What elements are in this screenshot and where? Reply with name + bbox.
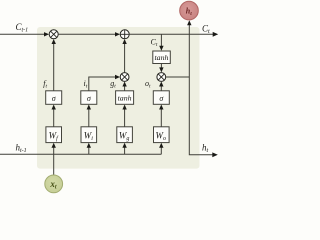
wire junction up to h_t state: [187, 20, 191, 77]
wire multiply to add node: [122, 39, 126, 73]
wire g gate to multiply: [122, 82, 126, 91]
node label C_t branch: [151, 37, 158, 48]
wire o gate to multiply: [159, 82, 163, 91]
wire C_{t-1} input: [0, 32, 49, 36]
tanh box (candidate gate): [116, 91, 134, 105]
wire W_i to sigma: [87, 105, 91, 127]
wire bus stub to W_g: [122, 143, 126, 155]
wire h_{t-1} input bus: [0, 153, 161, 155]
wire f gate to multiply: [52, 39, 56, 91]
node label C_t output: [202, 23, 210, 35]
svg-text:tanh: tanh: [155, 53, 169, 62]
wire W_g to tanh: [122, 105, 126, 127]
multiply node (i times g): [120, 73, 129, 82]
wire tanh to multiply: [159, 64, 163, 73]
sigma box (forget gate): [46, 91, 62, 105]
node label g_t: [110, 79, 116, 90]
wire multiply to add: [58, 32, 120, 36]
wire bus stub to W_o: [159, 143, 163, 155]
weight box W_i: [81, 127, 97, 143]
multiply node (forget gate): [49, 30, 58, 39]
node label f_t: [43, 79, 47, 90]
sigma box (input gate): [81, 91, 97, 105]
weight box W_g: [117, 127, 133, 143]
wire C_t output: [129, 32, 218, 37]
weight box W_f: [46, 127, 62, 143]
wire C_t branch to tanh: [159, 34, 163, 51]
node label h_{t-1}: [16, 143, 27, 155]
svg-text:tanh: tanh: [118, 94, 132, 103]
node label h_t output: [202, 143, 209, 155]
node label o_t: [145, 79, 151, 90]
multiply node (o times tanh C): [157, 73, 166, 82]
wire bus stub to W_i: [87, 143, 91, 155]
node label i_t: [84, 79, 88, 90]
wire i gate to multiply (up and right): [89, 75, 120, 91]
wire W_o to sigma: [159, 105, 163, 127]
wire x_t up to W_f: [52, 143, 56, 175]
weight box W_o: [154, 127, 170, 143]
hidden state h_t circle: [180, 1, 199, 20]
node label C_{t-1}: [16, 22, 29, 34]
tanh box (cell output squash): [153, 51, 171, 64]
cell body panel: [37, 27, 200, 169]
wire junction down and right to h_t output: [189, 77, 218, 157]
wire multiply to h junction: [166, 76, 190, 78]
add node: [120, 30, 129, 39]
sigma box (output gate): [153, 91, 169, 105]
wire W_f to sigma: [52, 105, 56, 127]
input x_t circle: [45, 175, 63, 193]
